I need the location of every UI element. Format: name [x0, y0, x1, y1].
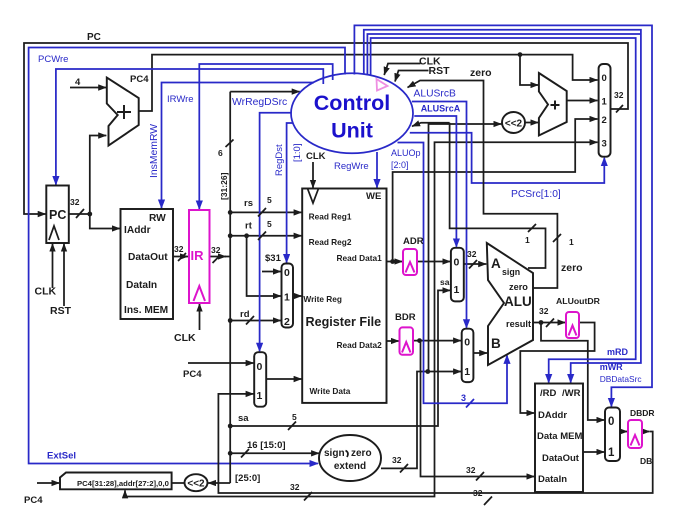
wire rt branch to write-reg mux input 1 [247, 236, 281, 296]
wire Read Data2 to BDR [387, 340, 400, 342]
wire RegWre (blue) into Register File WE [376, 152, 378, 188]
mux DB (0/1) [605, 408, 620, 462]
svg-text:32: 32 [467, 249, 477, 259]
wire IR output to instruction bus [210, 256, 227, 258]
node B-mux input1 junction [425, 369, 430, 374]
wire vertical joining B-mux input 1 junction [429, 124, 502, 372]
pink clock triangle on Control Unit [377, 79, 388, 91]
svg-text:0: 0 [608, 416, 614, 428]
svg-text:extend: extend [334, 461, 366, 472]
slash PC out 32 [76, 209, 84, 218]
svg-text:1: 1 [569, 237, 574, 247]
wire DataOut to DB-mux input 1 [583, 451, 605, 453]
svg-text:1: 1 [525, 235, 530, 245]
svg-text:1: 1 [608, 447, 615, 459]
wire PC output branch up to adder1 lower input [90, 136, 107, 215]
svg-text:zero: zero [470, 67, 492, 79]
node rd junction on bus [228, 318, 233, 323]
slash DB 32 [484, 497, 492, 506]
mux A (0/1) [451, 248, 464, 302]
comma ideograph drawn [346, 451, 348, 458]
wire fourth blue control loop [371, 38, 636, 383]
svg-text:$31: $31 [265, 253, 282, 264]
wire DB bus: DBDR output along bottom to write-data mux input 1 [218, 394, 652, 493]
clock triangle of PC [49, 226, 59, 240]
wire mRD (blue) loop to /RD [367, 34, 641, 75]
clock triangle of IR [194, 286, 206, 301]
svg-text:PC4: PC4 [183, 369, 202, 380]
register DBDR [628, 420, 642, 448]
wire ALUoutDR output feedback to mux4 input 3 [520, 323, 594, 414]
svg-text:mRD: mRD [607, 347, 629, 357]
node ALU result junction [539, 320, 544, 325]
svg-text:Ins. MEM: Ins. MEM [124, 305, 168, 316]
wire Read Data1 to ADR [387, 261, 403, 263]
wire ALUSrcA (blue) to A-mux select [414, 116, 456, 247]
svg-text:[2:0]: [2:0] [391, 160, 409, 170]
register ADR [403, 249, 417, 275]
svg-text:5: 5 [267, 219, 272, 229]
svg-text:result: result [506, 319, 531, 329]
svg-text:<<2: <<2 [505, 119, 523, 130]
wire Read Data1 branch down [393, 119, 598, 262]
svg-text:32: 32 [70, 197, 80, 207]
svg-text:3: 3 [461, 393, 466, 403]
register ALUoutDR [566, 312, 579, 338]
slash rd 5 [246, 316, 254, 325]
svg-text:IR: IR [191, 248, 205, 263]
svg-text:/WR: /WR [562, 388, 581, 399]
svg-text:32: 32 [211, 245, 221, 255]
svg-text:PC4: PC4 [130, 74, 149, 85]
svg-text:Write Data: Write Data [310, 386, 351, 396]
svg-text:IAddr: IAddr [124, 225, 151, 236]
wire shifter <<2a to adder2 [525, 122, 538, 124]
register BDR [400, 327, 414, 354]
wire CLK stub into IR [199, 304, 201, 331]
svg-text:ALUoutDR: ALUoutDR [556, 296, 601, 306]
slash IR out 32 [213, 255, 221, 263]
svg-text:ALUOp: ALUOp [391, 148, 421, 158]
wire shifter <<2b to concat box [172, 482, 185, 484]
svg-text:ALUSrcB: ALUSrcB [414, 89, 456, 100]
wire extender output up to B-mux input 1 [381, 372, 461, 469]
svg-text:Write Reg: Write Reg [303, 294, 342, 304]
svg-text:rd: rd [240, 309, 250, 320]
wire PC4 branch down to adder2 top input [520, 55, 538, 85]
node Read Data1 junction [390, 259, 395, 264]
slash rt 5 [258, 232, 266, 241]
shifter circle <<2b [185, 474, 208, 491]
svg-text:ExtSel: ExtSel [47, 451, 76, 462]
ellipse sign zero extend [319, 435, 381, 481]
svg-text:1: 1 [464, 366, 470, 378]
wire zero from ALU into Control Unit [408, 81, 558, 289]
svg-text:rt: rt [245, 221, 253, 232]
slash rs 5 [258, 208, 266, 217]
node PC4 top junction [518, 52, 523, 57]
slash zero 1 [553, 234, 561, 242]
concat box PC4/addr [60, 473, 172, 490]
slash DataOut 32 [178, 253, 186, 261]
svg-text:0: 0 [602, 73, 607, 84]
svg-text:0: 0 [454, 257, 460, 269]
wire PCSrc (blue) to mux4 select [410, 133, 605, 183]
slash opcode 6 [226, 140, 234, 148]
svg-text:32: 32 [392, 455, 402, 465]
svg-text:<<2: <<2 [187, 479, 205, 490]
wire IRWre (blue) control to IR [199, 64, 332, 209]
svg-text:RST: RST [429, 65, 451, 77]
wire DBDataSrc (blue) loop to DB-mux select [354, 25, 652, 406]
svg-text:WE: WE [366, 191, 381, 202]
svg-text:Unit: Unit [331, 119, 373, 143]
wire CLK into Control Unit [384, 64, 420, 76]
svg-text:2: 2 [602, 115, 607, 126]
wire A-mux output to ALU A [464, 263, 487, 265]
svg-text:Control: Control [314, 91, 390, 115]
svg-text:/RD: /RD [540, 388, 557, 399]
wire PC loop: mux4 output to PC input [24, 43, 628, 214]
svg-text:1: 1 [602, 97, 608, 108]
svg-text:32: 32 [290, 482, 300, 492]
wire arrow up into concat box bottom [124, 490, 126, 497]
svg-text:RST: RST [50, 305, 72, 317]
wire DB-mux output to DBDR [620, 431, 628, 433]
svg-text:CLK: CLK [35, 286, 57, 298]
svg-text:rs: rs [244, 198, 253, 209]
wire PC output to IAddr [69, 214, 120, 229]
wire $31 to write-reg mux input 0 [262, 271, 281, 273]
svg-text:16 [15:0]: 16 [15:0] [247, 440, 286, 451]
svg-text:32: 32 [539, 306, 549, 316]
slash sa 5 [288, 422, 296, 431]
wire RegDst (blue) to write-reg mux select [287, 123, 294, 263]
wire sa to A-mux input 1 [230, 290, 450, 426]
wire CLK into Register File [312, 162, 314, 188]
svg-text:1: 1 [257, 390, 263, 402]
wire rd to write-reg mux input 2 [230, 320, 281, 322]
wire DataOut to IR [173, 256, 188, 258]
svg-text:5: 5 [267, 195, 272, 205]
svg-text:DAddr: DAddr [538, 410, 567, 421]
svg-text:[25:0]: [25:0] [235, 473, 260, 484]
svg-text:B: B [491, 336, 501, 351]
register PC [46, 186, 69, 244]
slash ALUOp 3 (blue) [466, 399, 474, 408]
wire DBDR output arrow [642, 431, 650, 433]
slash mux4 out 32 [616, 105, 623, 113]
mux B (0/1) [462, 329, 474, 382]
wire B-mux output to ALU B [473, 352, 487, 354]
svg-text:ALU: ALU [504, 294, 532, 309]
wire rs to Read Reg1 [230, 211, 302, 213]
svg-text:PC4[31:28],addr[27:2],0,0: PC4[31:28],addr[27:2],0,0 [77, 479, 169, 488]
wire ADR to A-mux input 0 [417, 261, 450, 263]
wire PCWre (blue) control to PC [56, 69, 323, 185]
svg-text:DBDR: DBDR [630, 408, 655, 418]
svg-text:5: 5 [292, 412, 297, 422]
slash DataIn 32 [476, 472, 484, 481]
svg-text:DBDataSrc: DBDataSrc [600, 374, 642, 384]
svg-text:mWR: mWR [600, 362, 623, 372]
adder1 PC+4 [107, 78, 139, 146]
svg-text:Data MEM: Data MEM [537, 431, 582, 442]
shifter circle <<2a [502, 112, 525, 133]
wire RST into PC [63, 244, 65, 307]
svg-text:0: 0 [464, 337, 470, 349]
svg-text:DB: DB [640, 456, 652, 466]
clock triangle of ALUoutDR [569, 326, 577, 336]
slash result 32 [546, 319, 554, 328]
slash extender out 32 [400, 464, 408, 473]
register IR [189, 210, 210, 303]
svg-text:CLK: CLK [306, 151, 326, 162]
svg-text:zero: zero [351, 448, 372, 459]
svg-text:Read Reg1: Read Reg1 [309, 212, 352, 222]
svg-text:4: 4 [75, 77, 81, 88]
mux write-reg (0/1/2) [282, 264, 294, 328]
clock triangle of BDR [402, 342, 411, 353]
svg-text:0: 0 [284, 267, 290, 279]
wire result branch down to DB-mux input 0 [541, 323, 605, 421]
svg-text:ADR: ADR [403, 236, 424, 247]
clock triangle of ADR [406, 262, 415, 273]
wire ALU result to ALUoutDR [533, 322, 566, 324]
slash A-mux out 32 [469, 260, 477, 269]
wire rt to Read Reg2 [230, 235, 302, 237]
wire WrRegDSrc (blue) to write-data mux select [260, 113, 292, 352]
svg-text:32: 32 [614, 90, 624, 100]
svg-text:PCSrc[1:0]: PCSrc[1:0] [511, 189, 561, 200]
svg-text:RegDst: RegDst [274, 144, 285, 176]
adder2 branch [539, 73, 567, 136]
node BDR output junction [417, 338, 422, 343]
svg-text:IRWre: IRWre [167, 94, 194, 105]
wire BDR to B-mux input 0 [413, 340, 461, 342]
svg-text:6: 6 [218, 148, 223, 158]
svg-text:DataOut: DataOut [542, 453, 580, 464]
svg-text:sa: sa [238, 413, 249, 424]
slash jump 32 [304, 492, 312, 501]
slash imm 16 [241, 449, 249, 458]
svg-text:Read Data1: Read Data1 [337, 253, 383, 263]
svg-text:2: 2 [284, 316, 290, 328]
wire sign vertical and from ALU [450, 123, 546, 268]
wire sign into Control Unit [412, 123, 450, 127]
plus sign of adder1 [117, 105, 131, 119]
mux4 PC source (0/1/2/3) [599, 64, 611, 157]
svg-text:PC: PC [87, 32, 101, 43]
svg-text:32: 32 [473, 488, 483, 498]
svg-text:PC: PC [49, 208, 66, 222]
svg-text:32: 32 [174, 244, 184, 254]
clock triangle of DBDR [631, 435, 640, 446]
svg-text:DataOut: DataOut [128, 252, 168, 263]
svg-text:zero: zero [509, 282, 528, 292]
wire constant 4 into adder1 [70, 87, 106, 89]
wire RST into Control Unit [395, 71, 429, 82]
svg-text:BDR: BDR [395, 312, 416, 323]
wire mWR (blue) loop to /WR [364, 30, 641, 383]
svg-text:A: A [491, 256, 501, 271]
svg-text:sa: sa [440, 277, 450, 287]
wire jump address: bottom line up to mux4 input 2 [125, 142, 598, 496]
svg-text:Register File: Register File [306, 315, 382, 329]
node sa junction [228, 424, 233, 429]
ellipse Control Unit [291, 73, 413, 153]
wire ExtSel (blue) control loop to extender [29, 48, 345, 464]
wire PC4 to write-data mux input 0 [188, 362, 254, 364]
node rt branch junction [244, 233, 249, 238]
svg-text:zero: zero [561, 262, 583, 274]
ALU polygon [487, 243, 533, 365]
clock triangle of Register File [308, 189, 319, 203]
mux write-data (0/1) [254, 352, 266, 407]
svg-text:RegWre: RegWre [334, 161, 369, 172]
node PC output junction [87, 212, 92, 217]
register file box [302, 189, 386, 403]
wire write-reg mux output to Write Reg [293, 295, 302, 297]
svg-text:[1:0]: [1:0] [292, 144, 303, 163]
wire write-data mux output to Write Data [266, 378, 302, 380]
wire BDR branch down to DataIn [421, 341, 535, 477]
data memory box [535, 384, 583, 493]
svg-text:sign: sign [324, 448, 345, 459]
svg-text:ALUSrcA: ALUSrcA [421, 104, 461, 114]
wire InsMemRW (blue) control to memory RW [162, 83, 315, 209]
svg-text:1: 1 [454, 284, 460, 296]
wire PC4: adder1 output up and across to mux4 input 0 [139, 55, 598, 111]
wire ALUOp (blue) to ALU [398, 143, 508, 404]
memory Ins. MEM box [121, 209, 174, 319]
wire opcode [31:26] into Control Unit [230, 91, 300, 93]
wire CLK into PC [52, 244, 54, 289]
wire ALUSrcB (blue) to B-mux select [412, 102, 467, 328]
svg-text:0: 0 [257, 361, 263, 373]
wire imm 16 [15:0] into extender [230, 452, 319, 454]
svg-text:InsMemRW: InsMemRW [149, 124, 160, 178]
node rs junction [228, 210, 233, 215]
svg-text:Read Data2: Read Data2 [337, 340, 383, 350]
wire PC4 stub into concat box [37, 482, 60, 484]
svg-text:PCWre: PCWre [38, 54, 68, 65]
plus sign of adder2 [551, 101, 560, 110]
slash sign 1 [528, 224, 536, 232]
svg-text:WrRegDSrc: WrRegDSrc [232, 97, 287, 108]
node imm junction [228, 451, 233, 456]
wire instruction bus vertical [229, 92, 231, 483]
wire [25:0] into shifter <<2b [208, 482, 230, 484]
svg-text:32: 32 [466, 465, 476, 475]
node rt junction on bus [228, 233, 233, 238]
wire adder2 output to mux4 input 1 [567, 100, 598, 102]
svg-text:[31:26]: [31:26] [219, 172, 229, 200]
svg-text:DataIn: DataIn [538, 474, 567, 485]
svg-text:CLK: CLK [174, 332, 196, 344]
svg-text:Read Reg2: Read Reg2 [309, 237, 352, 247]
svg-text:DataIn: DataIn [126, 280, 157, 291]
svg-text:RW: RW [149, 213, 166, 224]
svg-text:3: 3 [602, 139, 607, 150]
svg-text:sign: sign [502, 267, 520, 277]
svg-text:1: 1 [284, 292, 290, 304]
svg-text:PC4: PC4 [24, 495, 43, 506]
